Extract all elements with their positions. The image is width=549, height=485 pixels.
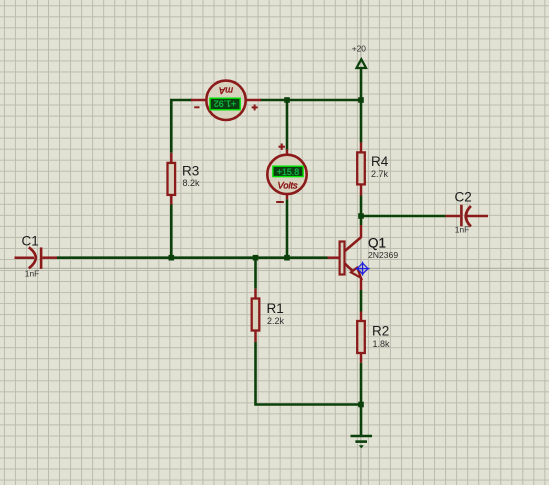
junction at R1 and base net: [253, 255, 259, 261]
label R2: [372, 324, 389, 339]
svg-text:1.8k: 1.8k: [373, 339, 391, 349]
svg-text:Volts: Volts: [278, 181, 298, 191]
ammeter negative mark: [194, 106, 199, 108]
label C1 value 1nF: [25, 268, 39, 278]
wire from base net down to R1 top: [254, 258, 257, 289]
wire from top rail junction down to voltmeter positive: [286, 100, 289, 150]
wire from R4 bottom to collector node: [360, 196, 363, 217]
wire from collector node down to Q1 collector: [360, 216, 363, 225]
label R2 value 1.8k: [373, 339, 391, 349]
wire from ammeter positive terminal to +20 rail: [260, 99, 361, 102]
ammeter positive mark: [252, 104, 258, 110]
ammeter (mA): [191, 81, 261, 120]
label R1: [267, 301, 284, 316]
svg-text:R3: R3: [182, 164, 199, 179]
svg-text:2.7k: 2.7k: [371, 169, 389, 179]
label Q1: [368, 236, 386, 251]
transistor Q1: [328, 225, 362, 290]
svg-text:1nF: 1nF: [25, 268, 39, 278]
wire base net from C1 to Q1 base: [57, 256, 328, 259]
ground: [351, 436, 373, 449]
capacitor C2: [446, 205, 489, 227]
label +20: [352, 43, 367, 53]
resistor R3: [168, 153, 176, 205]
svg-text:8.2k: 8.2k: [183, 178, 201, 188]
label Q1 type 2N2369: [368, 250, 398, 260]
resistor R4: [357, 143, 365, 196]
junction at ground rail: [358, 402, 364, 408]
svg-text:Q1: Q1: [368, 236, 386, 251]
svg-text:+15.8: +15.8: [277, 167, 299, 177]
label C2: [455, 190, 472, 205]
voltmeter (Volts): [267, 150, 306, 200]
label R4 value 2.7k: [371, 169, 389, 179]
origin marker at Q1 emitter: [356, 262, 370, 276]
svg-text:+1.92: +1.92: [214, 99, 236, 109]
svg-text:C1: C1: [22, 234, 39, 249]
junction at voltmeter negative and base net: [284, 255, 290, 261]
svg-text:R2: R2: [372, 324, 389, 339]
voltmeter positive mark: [279, 144, 285, 150]
junction at +20 rail and top rail: [358, 97, 364, 103]
voltmeter negative mark: [276, 201, 284, 203]
resistor R2: [357, 312, 365, 363]
label R3 value 8.2k: [183, 178, 201, 188]
wire from +20 power terminal down to top rail junction: [360, 69, 363, 101]
wire from R1 bottom to ground rail: [256, 342, 362, 405]
power terminal +20: [357, 59, 367, 68]
label C2 value 1nF: [455, 224, 469, 234]
svg-text:R4: R4: [371, 154, 389, 169]
capacitor C1: [15, 247, 58, 269]
svg-text:C2: C2: [455, 190, 472, 205]
svg-text:2N2369: 2N2369: [368, 250, 398, 260]
wire from voltmeter negative down to base net: [286, 199, 289, 257]
resistor R1: [252, 289, 260, 342]
label C1: [22, 234, 39, 249]
svg-text:mA: mA: [219, 85, 233, 96]
wire from R2 bottom to ground junction: [360, 363, 363, 405]
label R1 value 2.2k: [267, 316, 285, 326]
label R4: [371, 154, 389, 169]
wire from collector node to C2: [361, 215, 446, 218]
wire from ground junction to ground symbol: [360, 405, 363, 436]
wire from Q1 emitter down to R2: [360, 290, 363, 312]
label R3: [182, 164, 199, 179]
wire from R3 bottom to base net: [170, 205, 173, 258]
junction at R3 and base net: [169, 255, 175, 261]
wire from top rail junction down to R4: [360, 100, 363, 143]
svg-text:R1: R1: [267, 301, 284, 316]
junction at voltmeter positive and top rail: [284, 97, 290, 103]
wire from R3 branch corner to ammeter negative terminal: [171, 100, 192, 153]
svg-text:2.2k: 2.2k: [267, 316, 285, 326]
junction at collector node and C2: [358, 213, 364, 219]
svg-text:1nF: 1nF: [455, 224, 469, 234]
svg-text:+20: +20: [352, 43, 367, 53]
